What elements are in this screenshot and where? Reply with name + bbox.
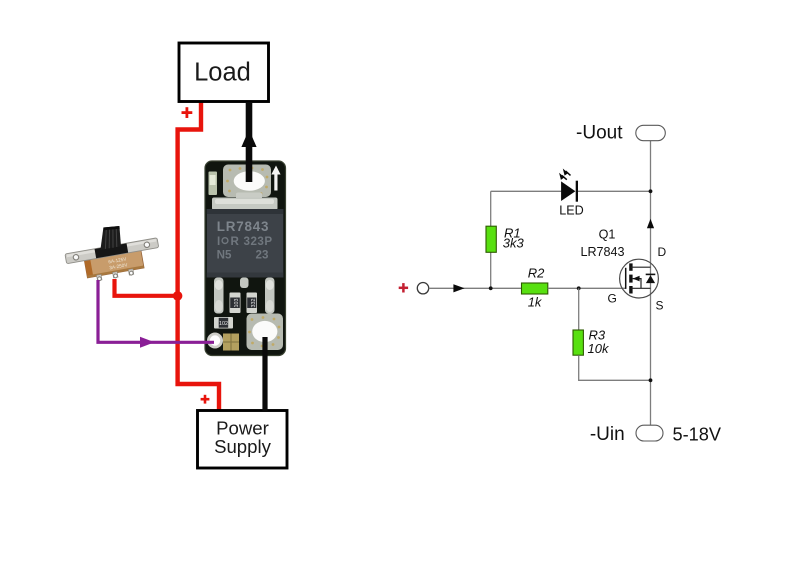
IC pins with solder bbox=[214, 278, 275, 314]
svg-text:Load: Load bbox=[194, 59, 251, 87]
wire: gate node down to R3 bbox=[578, 288, 580, 330]
svg-text:G: G bbox=[608, 292, 617, 306]
terminal -Uout bbox=[576, 122, 665, 143]
svg-text:23: 23 bbox=[256, 249, 269, 262]
node: source junction bbox=[649, 378, 653, 382]
svg-text:5-18V: 5-18V bbox=[673, 425, 722, 445]
svg-text:LR7843: LR7843 bbox=[217, 219, 269, 234]
node: gate junction bbox=[577, 286, 581, 290]
svg-text:Q1: Q1 bbox=[599, 228, 616, 242]
junction red dot bbox=[173, 291, 183, 301]
resistor R2 bbox=[522, 266, 548, 310]
black arrowhead up bbox=[241, 130, 256, 148]
svg-text:332: 332 bbox=[251, 299, 257, 308]
svg-text:I: I bbox=[217, 235, 220, 248]
svg-text:1k: 1k bbox=[528, 295, 543, 310]
solder tab band bbox=[212, 193, 278, 211]
wire red: Load to Power Supply main run bbox=[178, 102, 219, 412]
svg-text:323P: 323P bbox=[244, 235, 273, 248]
node: LED-drain junction bbox=[649, 189, 653, 193]
svg-text:3k3: 3k3 bbox=[503, 236, 525, 251]
top pad with hole bbox=[223, 165, 271, 198]
smd led left bbox=[209, 172, 218, 196]
svg-text:LED: LED bbox=[559, 203, 584, 217]
input terminal + bbox=[399, 283, 429, 294]
wire: LED row bbox=[491, 190, 562, 192]
svg-text:R: R bbox=[231, 235, 240, 248]
switch body (bakelite) bbox=[84, 250, 144, 278]
IC body LR7843 bbox=[207, 209, 283, 278]
smd resistor 103 bbox=[230, 293, 241, 314]
svg-text:R2: R2 bbox=[528, 266, 545, 281]
switch terminals bbox=[97, 269, 134, 281]
left wire hole bbox=[207, 333, 223, 349]
wire: R3 bottom to source line bbox=[579, 355, 651, 380]
svg-text:S: S bbox=[656, 298, 664, 312]
svg-text:LR7843: LR7843 bbox=[580, 245, 624, 259]
drain connection bbox=[631, 266, 651, 268]
channel dashes bbox=[629, 263, 632, 293]
terminal -Uin bbox=[590, 424, 722, 445]
switch slider knob bbox=[100, 226, 121, 250]
pcb board bbox=[205, 161, 286, 356]
body connection with arrow bbox=[633, 279, 641, 289]
smd resistor 332 bbox=[247, 293, 258, 314]
gate electrode bbox=[625, 268, 627, 289]
PCB module MOSFET board bbox=[205, 161, 286, 356]
input direction arrow bbox=[453, 284, 464, 292]
svg-text:-Uin: -Uin bbox=[590, 424, 625, 445]
smd resistor 102 bbox=[214, 317, 233, 329]
wire: main vertical drain/source line bbox=[650, 141, 652, 426]
block: Load bbox=[179, 43, 269, 102]
wire: R2 to gate bbox=[548, 287, 626, 289]
slide switch SW1 bbox=[65, 238, 163, 286]
node: R1 bottom junction bbox=[489, 286, 493, 290]
svg-text:N5: N5 bbox=[217, 249, 232, 262]
resistor R3 bbox=[573, 328, 610, 356]
svg-text:D: D bbox=[658, 245, 667, 259]
svg-text:-Uout: -Uout bbox=[576, 122, 623, 143]
MOSFET Q1 bbox=[580, 228, 666, 313]
wire black: module top pad to Load bbox=[246, 102, 253, 182]
purple arrowhead bbox=[140, 337, 155, 348]
wire red: switch middle pin to junction bbox=[115, 279, 178, 296]
gold pad grid bbox=[223, 334, 239, 351]
block: Power Supply bbox=[198, 411, 288, 469]
svg-text:10k: 10k bbox=[588, 341, 610, 356]
wire purple: switch left pin to module hole bbox=[98, 280, 214, 342]
wire black: module bottom pad to Power Supply bbox=[262, 337, 267, 411]
svg-text:Supply: Supply bbox=[214, 436, 272, 457]
svg-text:103: 103 bbox=[234, 299, 240, 308]
wire: input row bbox=[429, 287, 522, 289]
svg-text:102: 102 bbox=[219, 321, 228, 327]
resistor R1 bbox=[486, 226, 525, 253]
LED D1 bbox=[559, 169, 584, 218]
label + near Load bbox=[182, 107, 193, 118]
drain current arrow bbox=[647, 219, 654, 228]
source connection bbox=[631, 287, 651, 289]
body diode bbox=[646, 273, 656, 275]
bottom pad with hole bbox=[247, 314, 284, 351]
label + near Power Supply bbox=[201, 395, 210, 404]
wire: R1 branch vertical bbox=[490, 191, 492, 288]
switch mounting plate bbox=[65, 238, 159, 264]
white arrow marking on pcb bbox=[271, 166, 280, 191]
